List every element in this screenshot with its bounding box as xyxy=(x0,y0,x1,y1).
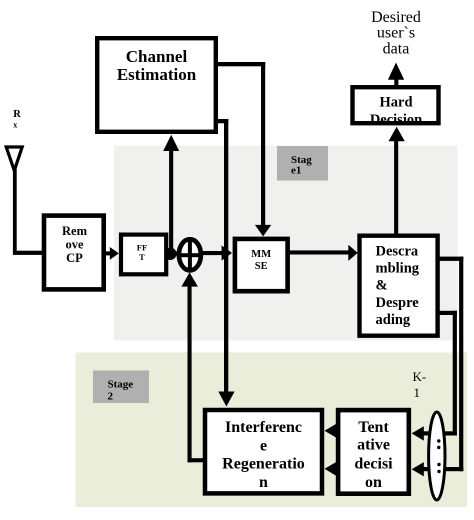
arrow Tentative decision to Interference Regeneration (upper) xyxy=(325,423,338,438)
adder (sum node) xyxy=(177,239,202,272)
label K-1 xyxy=(413,369,427,400)
svg-text:Decision: Decision xyxy=(370,112,422,128)
svg-text:CP: CP xyxy=(66,251,83,265)
svg-text:Hard: Hard xyxy=(379,95,412,111)
svg-text:K-: K- xyxy=(413,369,427,384)
svg-text:ative: ative xyxy=(357,437,390,454)
wire Descrambling lower output to Tentative decision (inner) xyxy=(412,311,457,441)
svg-text:Despre: Despre xyxy=(376,295,420,311)
block Remove CP xyxy=(44,216,104,290)
block Interference Regeneration xyxy=(205,410,322,493)
svg-text:Interferenc: Interferenc xyxy=(225,419,302,436)
antenna xyxy=(6,147,22,252)
block Hard Decision xyxy=(353,87,439,128)
label Desired user`s data xyxy=(371,9,421,58)
wire antenna to Remove CP xyxy=(13,251,44,255)
stage 2 background region xyxy=(76,353,468,508)
stage 1 background region xyxy=(114,146,458,341)
wire Remove CP to FFT xyxy=(105,247,119,260)
wire MMSE to Descrambling xyxy=(289,245,358,261)
svg-text:decisi: decisi xyxy=(354,456,393,473)
wire Descrambling to Hard Decision xyxy=(389,127,405,235)
arrow Tentative decision to Interference Regeneration (lower) xyxy=(325,462,338,477)
block MMSE xyxy=(235,239,288,291)
svg-text:x: x xyxy=(13,120,17,129)
svg-text:ove: ove xyxy=(65,237,84,251)
svg-text:on: on xyxy=(365,474,382,491)
svg-text:e1: e1 xyxy=(291,165,301,177)
svg-text:&: & xyxy=(376,278,388,294)
wire FFT to adder xyxy=(166,252,179,256)
block Channel Estimation xyxy=(97,38,216,132)
stage 1 label xyxy=(277,146,328,181)
svg-text:Regeneratio: Regeneratio xyxy=(222,456,305,473)
wire Channel Estimation to Interference Regeneration xyxy=(217,119,235,407)
wire Hard Decision to output xyxy=(388,63,404,87)
svg-text:e: e xyxy=(260,437,267,454)
svg-text:user`s: user`s xyxy=(377,25,415,42)
svg-text:mbling: mbling xyxy=(376,261,420,277)
svg-text:Descra: Descra xyxy=(376,243,419,259)
block Tentative decision xyxy=(338,410,409,494)
junction node at FFT output xyxy=(164,248,176,260)
svg-text:SE: SE xyxy=(255,261,268,272)
svg-text:2: 2 xyxy=(108,391,114,403)
svg-text:T: T xyxy=(139,252,145,262)
svg-text:Desired: Desired xyxy=(371,9,421,26)
svg-text:Stage: Stage xyxy=(108,379,134,391)
wire Channel Estimation to MMSE top xyxy=(217,62,271,236)
wire loop from Interference Regeneration to adder xyxy=(181,272,204,462)
block Descrambling and Despreading xyxy=(360,236,438,336)
ellipse K users xyxy=(429,412,445,500)
label Rx xyxy=(13,109,21,129)
wire Descrambling upper output to Tentative decision (outer) xyxy=(412,257,464,477)
svg-text:ading: ading xyxy=(376,312,411,328)
stage 2 label xyxy=(93,371,149,404)
svg-text:Rem: Rem xyxy=(62,224,88,238)
svg-text:MM: MM xyxy=(251,249,271,260)
svg-text:Channel: Channel xyxy=(126,47,188,66)
svg-text:data: data xyxy=(383,41,410,58)
svg-text:FF: FF xyxy=(137,242,147,252)
block FFT xyxy=(121,235,166,275)
svg-text:Tent: Tent xyxy=(358,419,389,436)
svg-text:R: R xyxy=(13,109,21,120)
wire junction up to Channel Estimation xyxy=(163,135,179,254)
svg-text:Estimation: Estimation xyxy=(117,65,197,84)
svg-text:1: 1 xyxy=(414,385,421,400)
svg-text:n: n xyxy=(259,474,268,491)
wire adder to MMSE xyxy=(201,245,232,260)
